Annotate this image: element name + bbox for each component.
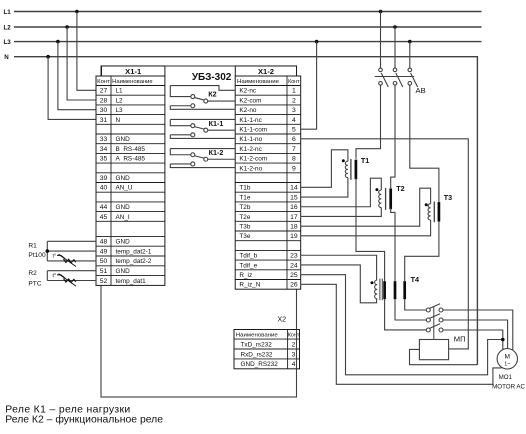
svg-text:K1-1-nc: K1-1-nc [239,117,262,124]
wire T2 secondary to pins 16, 17 [301,178,382,216]
wire contactor contact 1 to motor [443,310,513,350]
svg-text:R2: R2 [28,270,37,277]
wire T1 primary to T4 phase bar A [356,178,385,281]
motor M01 (MOTOR AC) [492,349,525,391]
svg-text:Наименование: Наименование [236,332,278,338]
wire T3 primary to T4 phase bar C [405,222,439,281]
connector X2 (RS-232 table) [234,315,300,369]
svg-text:30: 30 [100,107,108,114]
wire pin 25 (R_iz) to motor terminal [301,275,502,375]
svg-text:14: 14 [290,185,298,192]
svg-text:МП: МП [454,334,466,343]
svg-text:9: 9 [292,165,296,172]
current transformer T2 [375,184,404,210]
svg-text:2: 2 [292,97,296,104]
svg-text:7: 7 [292,146,296,153]
current transformer T3 [425,193,452,222]
connector X1-2 (label box, title, terminal table with pins 1-26) [235,66,301,289]
svg-text:8: 8 [292,156,296,163]
svg-text:17: 17 [290,214,298,221]
circuit breaker АВ (3-pole) [375,10,426,95]
svg-text:temp_dat2-1: temp_dat2-1 [116,248,152,255]
svg-text:Реле К2 – функциональное реле: Реле К2 – функциональное реле [5,414,163,426]
svg-text:19: 19 [290,233,298,240]
svg-text:B RS-485: B RS-485 [116,146,146,153]
svg-text:Т3: Т3 [444,193,452,202]
wire breaker pole 1 to T1 primary [356,85,381,159]
svg-text:X1-1: X1-1 [125,67,142,76]
svg-text:51: 51 [100,268,108,275]
svg-text:Т1: Т1 [361,156,369,165]
device enclosure УБЗ-302 [101,66,297,397]
svg-text:K1-1-no: K1-1-no [239,136,262,143]
relay K1-1 (load relay contact 1, pins 4-5-6) [170,119,235,139]
wire contactor coil to N [410,349,478,364]
svg-text:R_iz: R_iz [239,272,252,279]
wire L2 to X1-1 pin 28 [65,25,96,100]
svg-text:3: 3 [292,351,296,358]
svg-text:1: 1 [292,88,296,95]
wire T4 secondary to pin 23 (Tdif_b) [301,255,377,280]
svg-text:31: 31 [100,117,108,124]
svg-text:L3: L3 [4,39,12,46]
svg-text:АВ: АВ [416,86,426,95]
svg-text:T2b: T2b [239,204,250,211]
svg-text:Т2: Т2 [396,184,404,193]
differential transformer T4 (three phase bars through core) [371,275,419,300]
svg-text:Т4: Т4 [411,275,419,284]
svg-text:GND: GND [116,239,131,246]
svg-text:AN_U: AN_U [116,185,133,192]
svg-text:PTC: PTC [28,281,41,288]
svg-text:44: 44 [100,204,108,211]
contactor МП (3 contacts, linkage, coil) [419,304,465,360]
wire phase B (T4) to contactor contact 2 [395,299,426,320]
svg-text:K1-2-com: K1-2-com [239,156,267,163]
svg-text:N: N [116,117,121,124]
svg-text:Конт: Конт [288,79,300,85]
wire T2 primary to T4 phase bar B [391,208,395,282]
wire breaker pole 2 to T2 primary [391,85,395,188]
svg-text:temp_dat1: temp_dat1 [116,278,147,285]
svg-text:К1-1: К1-1 [209,119,224,128]
power line L2 [4,24,482,31]
relay K1-2 (load relay contact 2, pins 7-8-9) [170,148,235,168]
svg-text:GND: GND [116,136,131,143]
enclosure right edge crossing X2 [296,330,298,369]
wire T4 secondary to pin 24 (Tdif_e) [301,265,377,303]
svg-text:GND_RS232: GND_RS232 [241,361,279,368]
svg-text:L2: L2 [4,24,12,31]
wire L1 to X1-1 pin 27 [75,10,96,91]
wire N to X1-1 pin 31 [46,55,96,120]
svg-text:temp_dat2-2: temp_dat2-2 [116,258,152,265]
svg-text:K1-1-com: K1-1-com [239,126,267,133]
svg-text:К1-2: К1-2 [209,148,224,157]
svg-text:A RS-485: A RS-485 [116,156,146,163]
svg-text:34: 34 [100,146,108,153]
current transformer T1 [342,156,369,180]
svg-text:GND: GND [116,175,131,182]
svg-text:AN_I: AN_I [116,214,130,221]
svg-text:26: 26 [290,282,298,289]
junction node at motor phase terminal [501,338,505,342]
svg-text:23: 23 [290,253,298,260]
svg-text:T3e: T3e [239,233,250,240]
svg-text:52: 52 [100,278,108,285]
svg-text:L1: L1 [4,9,12,16]
svg-text:6: 6 [292,136,296,143]
svg-text:T1b: T1b [239,185,250,192]
wire T3 secondary to pins 18, 19 [301,188,431,236]
relay K2 (functional relay changeover contact, pins 1-2-3) [170,86,235,110]
svg-text:L1: L1 [116,88,124,95]
svg-text:1~: 1~ [504,361,510,367]
wire X1-2 pin 6 (K1-1-no) to contactor coil МП [301,139,469,349]
svg-text:48: 48 [100,239,108,246]
wire phase A (T4) to contactor contact 3 [385,299,427,330]
svg-text:K1-2-no: K1-2-no [239,165,262,172]
svg-text:R_iz_N: R_iz_N [239,282,260,289]
svg-text:15: 15 [290,194,298,201]
svg-text:R1: R1 [28,243,37,250]
svg-text:Конт: Конт [97,79,110,85]
svg-text:5: 5 [292,126,296,133]
svg-text:3: 3 [292,107,296,114]
wire contactor contact 2 to motor [443,320,508,349]
svg-text:Конт: Конт [288,332,300,338]
wire contactor contact 3 to motor [443,330,503,349]
svg-text:Tdif_b: Tdif_b [239,253,257,260]
svg-text:T2e: T2e [239,214,250,221]
svg-text:Наименование: Наименование [112,79,153,85]
svg-text:t°: t° [53,273,57,279]
sensor R2 PTC (to pins 51,52) [28,270,96,288]
svg-text:GND: GND [116,204,131,211]
svg-text:28: 28 [100,97,108,104]
svg-text:18: 18 [290,223,298,230]
svg-text:2: 2 [292,341,296,348]
svg-text:49: 49 [100,248,108,255]
svg-text:GND: GND [116,268,131,275]
svg-text:Tdif_e: Tdif_e [239,262,257,269]
svg-text:K2-com: K2-com [239,97,261,104]
svg-text:4: 4 [292,117,296,124]
power line N (turns down at right to contactor coil) [4,54,477,365]
svg-text:L3: L3 [116,107,124,114]
svg-text:МО1: МО1 [499,374,513,381]
svg-text:УБЗ-302: УБЗ-302 [192,72,232,83]
svg-text:X1-2: X1-2 [258,67,274,76]
sensor R1 Pt100 (3-wire RTD to pins 48,49,50) [28,241,96,266]
svg-text:25: 25 [290,272,298,279]
svg-text:MOTOR AC: MOTOR AC [492,384,525,391]
svg-text:40: 40 [100,185,108,192]
power line L1 [4,9,482,16]
svg-text:X2: X2 [277,315,286,324]
svg-text:K2-no: K2-no [239,107,256,114]
svg-text:K2-nc: K2-nc [239,88,256,95]
svg-text:Наименование: Наименование [237,79,279,85]
svg-text:24: 24 [290,262,298,269]
svg-text:K1-2-nc: K1-2-nc [239,146,262,153]
connector X1-1 (label box, title, terminal table with pins 27-52) [96,66,165,285]
svg-text:T3b: T3b [239,223,250,230]
svg-text:35: 35 [100,156,108,163]
svg-text:TxD_rs232: TxD_rs232 [241,341,273,348]
power line L3 [4,39,482,46]
svg-text:М: М [505,353,511,360]
svg-text:27: 27 [100,88,108,95]
wire L3 to X1-2 pin 5 (K1-1-com) [301,40,319,129]
svg-text:39: 39 [100,175,108,182]
svg-text:L2: L2 [116,97,124,104]
wire breaker pole 3 to T3 primary [410,85,439,204]
svg-text:N: N [4,54,9,61]
wire T1 secondary to pins 14, 15 [301,150,348,197]
svg-text:К2: К2 [208,90,216,99]
svg-text:45: 45 [100,214,108,221]
svg-text:50: 50 [100,258,108,265]
svg-text:t°: t° [53,253,57,259]
wire phase C (T4) to contactor contact 1 [405,299,427,310]
wire L3 to X1-1 pin 30 [56,40,96,110]
svg-text:T1e: T1e [239,194,250,201]
svg-text:RxD_rs232: RxD_rs232 [241,351,273,358]
wire pin 26 (R_iz_N) to motor neutral [301,284,502,384]
svg-text:16: 16 [290,204,298,211]
svg-text:Pt100: Pt100 [28,252,46,259]
svg-text:33: 33 [100,136,108,143]
svg-text:4: 4 [292,361,296,368]
